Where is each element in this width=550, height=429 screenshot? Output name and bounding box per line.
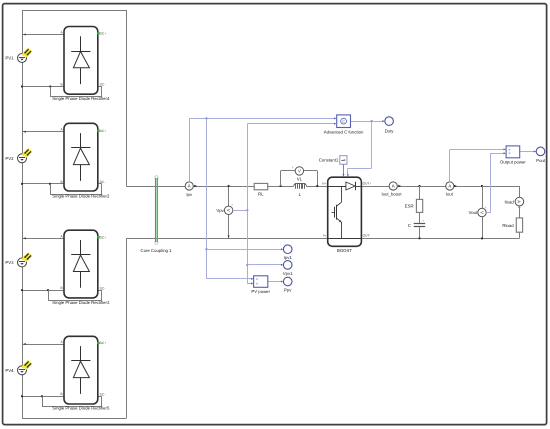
tag Vpv1 xyxy=(283,261,293,276)
ammeter Ipv xyxy=(185,182,197,197)
svg-text:Single Phase Diode Rectifier5: Single Phase Diode Rectifier5 xyxy=(52,406,110,411)
wire Vpv signal to Advanced C function input 2 xyxy=(233,123,337,212)
tag Ipv1 xyxy=(283,245,292,260)
svg-text:Single Phase Diode Rectifier3: Single Phase Diode Rectifier3 xyxy=(52,300,110,305)
svg-text:+: + xyxy=(292,165,294,169)
wire rectifier2 DC- return xyxy=(50,184,102,195)
ammeter Iout xyxy=(446,182,457,197)
svg-text:BOOST: BOOST xyxy=(337,248,352,253)
svg-text:DC+: DC+ xyxy=(100,341,107,345)
rectifier block Single Phase Diode Rectifier3 xyxy=(52,230,110,305)
svg-text:Iout_boost: Iout_boost xyxy=(381,192,402,197)
svg-text:Single Phase Diode Rectifier2: Single Phase Diode Rectifier2 xyxy=(52,194,110,199)
svg-text:DC-: DC- xyxy=(100,180,106,184)
wire Ipv signal branch down to PV power input 1 xyxy=(205,118,253,280)
PV source PV4 xyxy=(5,362,31,375)
svg-text:V: V xyxy=(479,211,484,214)
svg-text:Vout: Vout xyxy=(469,210,478,215)
svg-text:Rload: Rload xyxy=(502,223,514,228)
wire PV2+ to rectifier pin A xyxy=(22,131,64,133)
svg-text:DC-: DC- xyxy=(100,286,106,290)
svg-text:OUT-: OUT- xyxy=(363,234,371,238)
wire PV power output to tag Ppv xyxy=(268,281,284,283)
tag Pout xyxy=(536,147,546,163)
wire Ipv signal to Advanced C function input 1 xyxy=(189,117,336,182)
svg-text:ESR: ESR xyxy=(405,203,414,208)
wire PV array bus loop (enclosure) xyxy=(22,10,127,419)
capacitor C xyxy=(408,212,425,239)
inductor L xyxy=(294,184,307,197)
svg-text:In-: In- xyxy=(323,234,327,238)
BOOST pin labels xyxy=(322,181,371,253)
svg-text:V: V xyxy=(298,169,301,174)
svg-text:+: + xyxy=(484,205,486,209)
rectifier block Single Phase Diode Rectifier2 xyxy=(52,123,110,198)
wire PV3+ to rectifier pin A xyxy=(22,237,64,239)
wire PV1+ to rectifier pin A xyxy=(22,33,64,35)
IGBT inside BOOST xyxy=(328,186,362,239)
wire Vpv signal branch to tag Vpv1 xyxy=(247,264,283,266)
PV source PV3 xyxy=(5,254,31,267)
voltmeter VL xyxy=(280,165,319,187)
svg-text:Core Coupling 1: Core Coupling 1 xyxy=(140,248,172,253)
svg-text:DC+: DC+ xyxy=(100,236,107,240)
ammeter Iload xyxy=(504,197,523,209)
svg-text:DC-: DC- xyxy=(100,83,106,87)
svg-text:Constant1: Constant1 xyxy=(319,158,339,163)
svg-text:Iout: Iout xyxy=(446,192,454,197)
tag Ppv xyxy=(283,277,292,292)
diode inside BOOST xyxy=(346,182,356,191)
wire Advanced C function output to Duty xyxy=(351,120,385,122)
svg-text:DC+: DC+ xyxy=(100,129,107,133)
function block Advanced C function U-ctrl xyxy=(324,115,364,135)
svg-text:OUT+: OUT+ xyxy=(363,181,372,185)
resistor Rload xyxy=(502,206,522,238)
svg-text:Output power: Output power xyxy=(500,159,526,164)
wire PV2- to rectifier pin B xyxy=(21,183,64,185)
wire PV3- to rectifier pin B xyxy=(21,289,64,291)
converter block BOOST xyxy=(328,177,362,246)
svg-text:Ipv1: Ipv1 xyxy=(284,255,293,260)
ammeter Iout_boost xyxy=(381,182,402,197)
svg-text:A: A xyxy=(517,200,522,203)
svg-text:C: C xyxy=(342,119,345,124)
rectifier block Single Phase Diode Rectifier5 xyxy=(52,336,110,410)
svg-text:RL: RL xyxy=(258,192,264,197)
svg-text:Duty: Duty xyxy=(385,129,395,134)
svg-text:PV3: PV3 xyxy=(5,260,14,265)
multiplier block Output power xyxy=(500,146,526,165)
svg-text:VL: VL xyxy=(297,177,303,182)
wire Output power to tag Pout xyxy=(520,151,537,153)
wire Vout signal to Output power input 2 xyxy=(486,152,506,212)
svg-text:Advanced C function: Advanced C function xyxy=(324,130,364,135)
svg-text:+: + xyxy=(422,219,424,223)
wire DC- rail (bottom) xyxy=(126,238,519,240)
rectifier block Single Phase Diode Rectifier4 xyxy=(52,27,110,102)
wire Vpv signal branch down to PV power input 2 xyxy=(246,210,253,284)
svg-text:Vpv1: Vpv1 xyxy=(283,271,293,276)
tag Duty xyxy=(385,117,395,134)
svg-text:B: B xyxy=(60,286,62,290)
svg-text:B: B xyxy=(60,83,62,87)
wire rectifier4 DC- return xyxy=(42,396,102,406)
wire DC+ rail (top) xyxy=(126,186,519,188)
wire duty signal down to BOOST PWM pin xyxy=(347,121,372,177)
PV source PV1 xyxy=(5,49,31,62)
svg-text:PV4: PV4 xyxy=(5,368,14,373)
svg-text:V: V xyxy=(226,209,231,212)
svg-text:A: A xyxy=(448,184,451,189)
svg-text:Ipv: Ipv xyxy=(186,192,193,197)
svg-text:DC-: DC- xyxy=(100,392,106,396)
voltmeter Vout xyxy=(469,185,487,240)
svg-text:B: B xyxy=(60,392,62,396)
wire PV1- to rectifier pin B xyxy=(21,85,64,87)
wire right rail down xyxy=(519,186,521,197)
wire Ipv signal branch to tag Ipv1 xyxy=(207,248,284,250)
svg-text:Iload: Iload xyxy=(504,199,514,204)
voltmeter Vpv xyxy=(216,185,233,238)
svg-text:Single Phase Diode Rectifier4: Single Phase Diode Rectifier4 xyxy=(52,96,110,101)
wire rectifier1 DC- return xyxy=(50,87,102,97)
svg-text:PV2: PV2 xyxy=(5,156,14,161)
wire PV4+ to rectifier pin A xyxy=(22,343,64,345)
svg-text:PV power: PV power xyxy=(251,289,270,294)
svg-text:A: A xyxy=(392,184,395,189)
svg-text:In+: In+ xyxy=(322,181,327,185)
svg-text:Pout: Pout xyxy=(536,158,546,163)
svg-text:PV1: PV1 xyxy=(5,56,14,61)
wire PV4- to rectifier pin B xyxy=(21,395,64,397)
core coupling Core Coupling 1 xyxy=(140,176,172,254)
svg-text:DC+: DC+ xyxy=(100,32,107,36)
wire Iout signal to Output power input 1 xyxy=(450,148,506,181)
resistor RL xyxy=(254,183,268,196)
svg-text:B: B xyxy=(60,180,62,184)
PV source PV2 xyxy=(5,150,31,163)
svg-text:C: C xyxy=(408,223,411,228)
svg-text:Ppv: Ppv xyxy=(284,288,292,293)
constant block Constant1 xyxy=(319,156,347,165)
svg-text:Vpv: Vpv xyxy=(216,208,224,213)
wire Constant1 to BOOST gate pin xyxy=(342,164,344,176)
resistor ESR xyxy=(405,185,423,213)
wire rectifier3 DC- return xyxy=(48,290,102,301)
svg-text:A: A xyxy=(188,184,191,189)
svg-text:+: + xyxy=(231,203,233,207)
multiplier block PV power xyxy=(251,276,270,294)
